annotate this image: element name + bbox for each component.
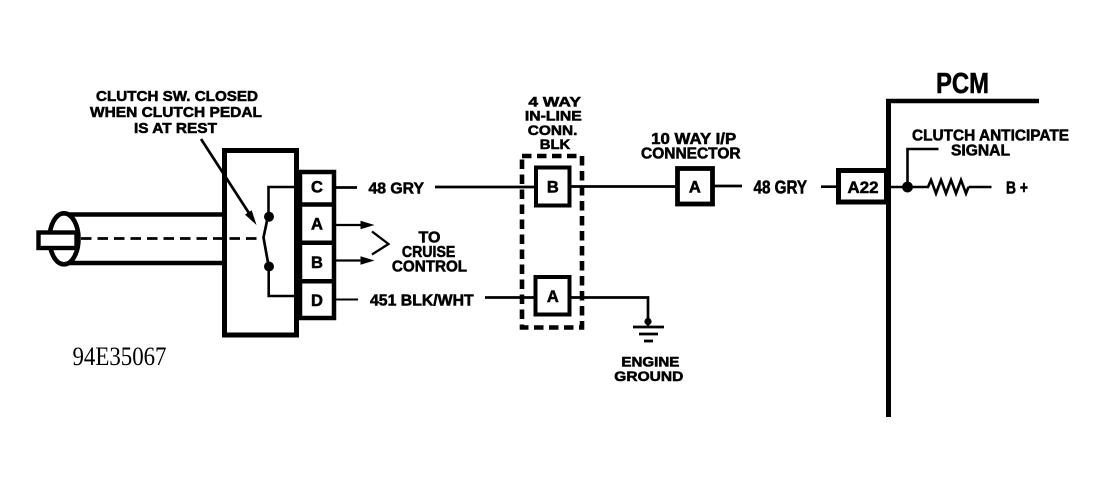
label 4 WAY IN-LINE CONN. BLK (525, 93, 582, 152)
svg-text:SIGNAL: SIGNAL (951, 143, 1010, 160)
switch body (225, 151, 297, 336)
lower contact dot (264, 262, 274, 272)
svg-text:B: B (547, 179, 559, 197)
switch blade (264, 219, 269, 267)
svg-text:48 GRY: 48 GRY (754, 178, 808, 198)
chevron brace (372, 232, 389, 255)
leader arrow to switch contact (201, 139, 257, 225)
label CLUTCH ANTICIPATE SIGNAL (912, 128, 1069, 160)
upper contact dot (264, 212, 274, 222)
terminal strip C A B D (300, 172, 334, 318)
ground junction dot (644, 318, 651, 325)
wire A to engine ground (572, 298, 649, 319)
PCM boundary vertical line (886, 99, 891, 417)
junction node dot (902, 182, 913, 193)
svg-text:IS AT REST: IS AT REST (134, 121, 217, 137)
label TO CRUISE CONTROL (392, 230, 467, 276)
wire to A22 (821, 185, 838, 188)
wire resistor to B+ (969, 186, 992, 189)
svg-text:D: D (311, 292, 323, 310)
in-line connector terminal B (536, 168, 570, 206)
svg-text:WHEN CLUTCH PEDAL: WHEN CLUTCH PEDAL (90, 105, 262, 121)
svg-text:PCM: PCM (936, 68, 989, 100)
svg-text:B: B (311, 254, 323, 272)
wire from 10-way A (714, 185, 742, 188)
svg-text:48 GRY: 48 GRY (369, 180, 425, 197)
signal leader elbow (908, 149, 939, 187)
arrow from B to cruise control (336, 256, 375, 264)
svg-text:CONTROL: CONTROL (392, 258, 467, 275)
label 10 WAY I/P CONNECTOR (641, 131, 741, 162)
wire: C terminal to upper contact (269, 187, 299, 214)
svg-text:A: A (689, 178, 701, 196)
arrow from A to cruise control (336, 221, 375, 229)
10-way I/P connector terminal A (678, 169, 713, 205)
clutch pedal shaft (cylinder) (50, 213, 225, 264)
label ENGINE GROUND (614, 354, 683, 384)
PCM boundary top line (886, 99, 1039, 104)
dashed centerline (81, 237, 261, 240)
svg-text:A22: A22 (848, 179, 879, 197)
wire B to 10-way connector (572, 185, 678, 188)
wire 48 GRY to in-line connector B (435, 186, 534, 189)
wire 451 to in-line connector A (485, 296, 534, 299)
svg-text:C: C (311, 179, 323, 197)
svg-text:451 BLK/WHT: 451 BLK/WHT (370, 293, 474, 310)
svg-text:IN-LINE: IN-LINE (525, 108, 582, 124)
wire stub from C (336, 186, 357, 189)
svg-text:GROUND: GROUND (614, 369, 683, 384)
svg-text:94E35067: 94E35067 (73, 342, 167, 371)
resistor (pull-up to B+) (928, 180, 969, 194)
svg-text:B +: B + (1006, 177, 1028, 197)
svg-text:CONNECTOR: CONNECTOR (641, 146, 741, 163)
svg-text:CLUTCH SW. CLOSED: CLUTCH SW. CLOSED (96, 89, 258, 105)
connector A22 (839, 171, 887, 203)
wire stub from D (336, 299, 358, 301)
svg-text:ENGINE: ENGINE (621, 354, 679, 369)
svg-text:BLK: BLK (540, 136, 571, 152)
wire A22 through PCM wall to resistor (888, 186, 929, 189)
svg-text:A: A (547, 288, 559, 306)
4-way in-line connector block (dashed) (522, 156, 582, 328)
in-line connector terminal A (536, 277, 570, 315)
callout text: CLUTCH SW. CLOSED WHEN CLUTCH PEDAL IS AT REST (90, 89, 262, 137)
svg-text:A: A (311, 216, 323, 234)
engine ground symbol (633, 318, 664, 341)
wire: lower contact to D terminal (269, 267, 298, 297)
shaft end tab (39, 233, 77, 249)
